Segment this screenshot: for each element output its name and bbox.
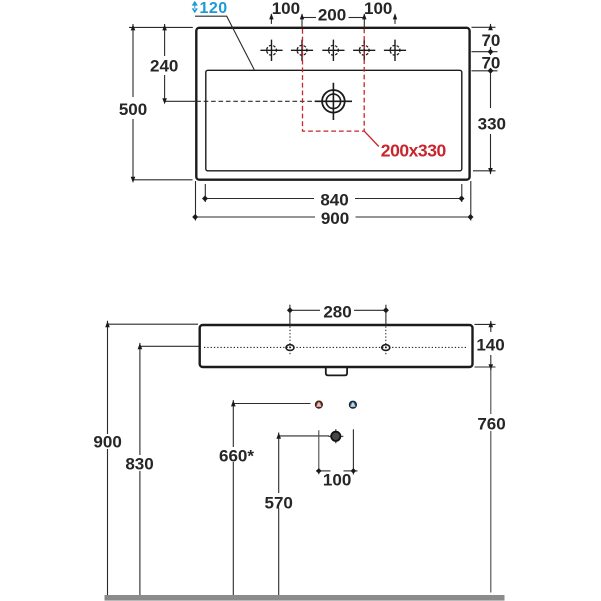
dim 900 (front, floor to rim) <box>108 323 199 325</box>
svg-text:760: 760 <box>477 414 505 433</box>
svg-text:120: 120 <box>200 0 228 17</box>
red leader <box>364 131 379 146</box>
dotted verticals through holes <box>289 327 291 357</box>
dim 280 <box>290 305 386 325</box>
svg-text:900: 900 <box>321 209 349 228</box>
dim 100 (waste offset) <box>316 429 358 474</box>
svg-text:330: 330 <box>478 115 506 134</box>
floor <box>105 595 505 601</box>
svg-text:830: 830 <box>125 455 153 474</box>
waste pipe symbol <box>328 429 343 443</box>
fixing hole right <box>382 345 390 351</box>
svg-text:240: 240 <box>150 56 178 75</box>
dim 570 (floor to waste) <box>279 435 329 437</box>
basin front rect <box>200 325 473 367</box>
svg-text:840: 840 <box>320 191 348 210</box>
drain collar below basin <box>326 368 347 376</box>
svg-text:200: 200 <box>318 6 346 25</box>
cold water symbol <box>350 401 357 408</box>
tap hole 5 <box>384 40 406 61</box>
top dim line 100/200/100 <box>269 13 397 28</box>
svg-text:900: 900 <box>93 433 121 452</box>
svg-text:100: 100 <box>323 470 351 489</box>
dim 140 <box>475 321 496 371</box>
fixing hole left <box>286 345 294 351</box>
tap hole 1 <box>260 40 282 61</box>
basin inner bowl rect (plan) <box>206 70 462 171</box>
right dims: 70 / 70 / 330 <box>472 24 498 174</box>
svg-text:660*: 660* <box>219 447 254 466</box>
basin outer rect (plan) <box>196 28 469 180</box>
bottom dims: 840 and 900 <box>196 181 471 221</box>
drain hole (plan) <box>315 83 352 120</box>
svg-text:200x330: 200x330 <box>381 141 447 161</box>
svg-text:100: 100 <box>272 0 300 18</box>
dim 830 (floor to fixing holes) <box>140 345 199 347</box>
svg-text:140: 140 <box>476 335 504 354</box>
dashed centre line to drain <box>165 100 197 102</box>
svg-text:280: 280 <box>323 303 351 322</box>
svg-text:70: 70 <box>481 53 500 72</box>
svg-text:70: 70 <box>481 31 500 50</box>
dim 760 (under basin to floor) <box>490 367 492 414</box>
svg-text:100: 100 <box>364 0 392 18</box>
hot water symbol <box>316 401 323 408</box>
svg-text:500: 500 <box>119 100 147 119</box>
cyan depth label 120 <box>192 0 255 70</box>
svg-text:570: 570 <box>265 494 293 513</box>
dotted fixing line across front <box>204 346 468 348</box>
tap hole 4 <box>353 40 375 61</box>
tap hole 2 <box>291 40 313 61</box>
tap hole 3 <box>322 40 344 61</box>
red dashed install zone 200x330 <box>303 29 365 131</box>
dim 660* (floor to mixer supplies) <box>233 403 310 405</box>
left dims: 500 and 240 <box>129 24 193 180</box>
